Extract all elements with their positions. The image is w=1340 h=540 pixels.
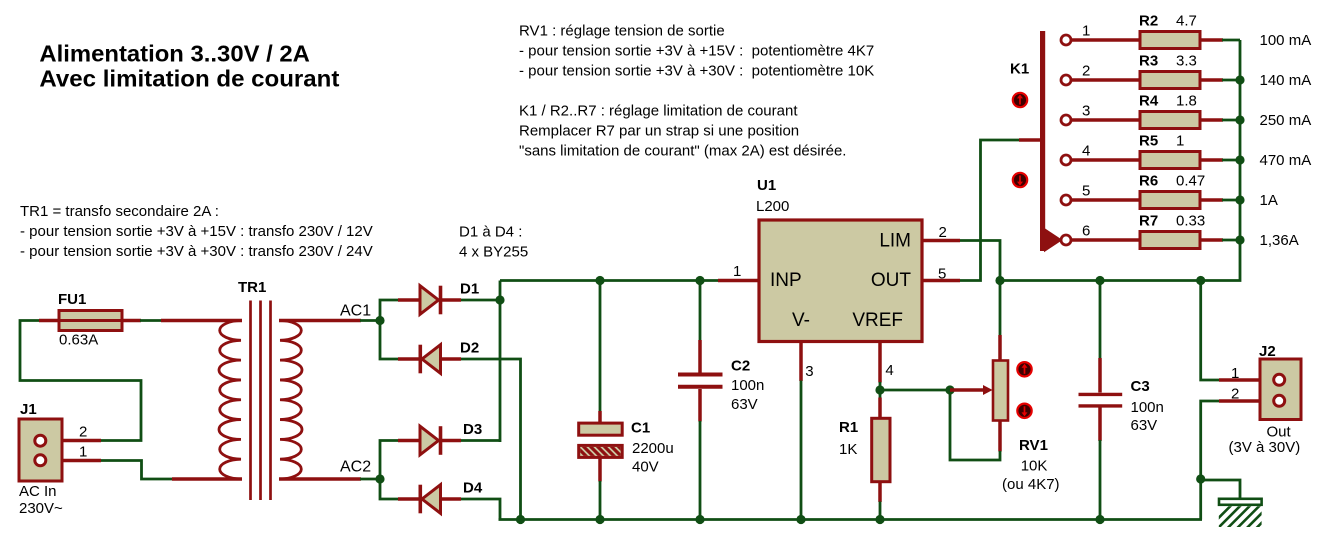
diode D1	[398, 298, 422, 302]
svg-text:C3: C3	[1131, 378, 1150, 395]
svg-text:5: 5	[938, 266, 946, 283]
svg-text:R3: R3	[1139, 53, 1158, 70]
svg-text:1A: 1A	[1260, 192, 1278, 209]
resistor R5	[1140, 152, 1200, 169]
svg-text:250 mA: 250 mA	[1260, 112, 1312, 129]
svg-text:Remplacer R7 par un strap si u: Remplacer R7 par un strap si une positio…	[519, 123, 799, 140]
ground	[1201, 480, 1240, 499]
svg-text:RV1 : réglage tension de sorti: RV1 : réglage tension de sortie	[519, 23, 725, 40]
svg-text:R4: R4	[1139, 93, 1159, 110]
wire VREF stub pin 4	[878, 340, 882, 383]
junction VREF	[875, 385, 884, 394]
wire	[140, 319, 162, 322]
svg-text:VREF: VREF	[852, 310, 903, 331]
connector J2	[1260, 359, 1301, 420]
svg-text:- pour tension sortie +3V à +1: - pour tension sortie +3V à +15V : poten…	[519, 43, 874, 60]
junction R5	[1235, 155, 1244, 164]
fuse FU1	[39, 319, 60, 323]
svg-text:2: 2	[939, 224, 947, 241]
svg-text:LIM: LIM	[879, 231, 911, 252]
RV1 wiper arrow	[950, 388, 984, 392]
wire RV1 top	[999, 281, 1002, 337]
K1 contact 2	[1069, 78, 1141, 82]
K1 pointer position 6	[1044, 228, 1063, 252]
junction RV1 wiper	[945, 385, 954, 394]
capacitor C3	[1099, 281, 1102, 360]
svg-text:63V: 63V	[731, 396, 758, 413]
K1 contact 1	[1069, 38, 1141, 42]
svg-text:2200u: 2200u	[632, 440, 674, 457]
svg-text:D3: D3	[463, 421, 482, 438]
node AC2	[375, 474, 384, 483]
node AC1	[375, 316, 384, 325]
svg-text:OUT: OUT	[871, 270, 912, 291]
wire OUT stub pin 5	[921, 279, 960, 283]
wire V- to ground	[800, 381, 803, 520]
wire J1 pin 1 stub	[40, 459, 101, 463]
diode D4	[398, 497, 421, 501]
svg-text:Avec limitation de courant: Avec limitation de courant	[39, 66, 339, 92]
junction C2 top	[695, 276, 704, 285]
resistor R7	[1140, 232, 1200, 249]
wire V- stub pin 3	[799, 340, 803, 381]
svg-text:R5: R5	[1139, 133, 1158, 150]
svg-text:FU1: FU1	[58, 291, 86, 308]
svg-text:0.33: 0.33	[1176, 213, 1205, 230]
op-amp U1 L200 regulator	[759, 220, 922, 342]
svg-text:2: 2	[1082, 63, 1090, 80]
svg-text:C2: C2	[731, 358, 750, 375]
RV1 up button	[1017, 362, 1031, 376]
wire AC1 to D2	[380, 321, 398, 360]
junction R6	[1235, 195, 1244, 204]
junction R4	[1235, 115, 1244, 124]
diode D3	[398, 439, 422, 443]
diode D2	[398, 357, 421, 361]
wire to J2 pin 1	[1201, 281, 1220, 381]
connector J1	[19, 419, 62, 481]
wire to J2 pin 2	[1201, 401, 1219, 480]
svg-text:AC In: AC In	[19, 483, 57, 500]
wire AC2 to D3	[380, 441, 398, 480]
junction R7	[1235, 235, 1244, 244]
switch K1	[1040, 31, 1045, 251]
junction C1 top	[595, 276, 604, 285]
svg-text:TR1: TR1	[238, 279, 266, 296]
K1 contact 4	[1069, 158, 1141, 162]
svg-text:V-: V-	[792, 310, 810, 331]
wire LIM to load rail	[960, 241, 1000, 281]
svg-text:(ou 4K7): (ou 4K7)	[1002, 476, 1060, 493]
svg-text:5: 5	[1082, 183, 1090, 200]
K1 up button	[1013, 93, 1027, 107]
svg-text:470 mA: 470 mA	[1260, 152, 1312, 169]
svg-text:K1: K1	[1010, 60, 1029, 77]
svg-text:R7: R7	[1139, 213, 1158, 230]
resistor R1	[878, 398, 882, 420]
wire INP stub pin 1	[718, 279, 760, 283]
junction C3 bottom	[1095, 515, 1104, 524]
junction J2 branch	[1196, 276, 1205, 285]
svg-text:100n: 100n	[731, 377, 764, 394]
svg-text:1: 1	[1231, 365, 1239, 382]
wire ground bottom rail	[499, 518, 1203, 521]
svg-text:Out: Out	[1267, 424, 1292, 441]
wire AC2 to D4	[380, 479, 398, 499]
resistor R6	[1140, 192, 1200, 209]
junction C1 bottom	[595, 515, 604, 524]
capacitor C1	[599, 281, 602, 413]
svg-text:1.8: 1.8	[1176, 93, 1197, 110]
wire to ground rail	[1199, 478, 1202, 520]
resistor R4	[1140, 112, 1200, 129]
svg-text:J1: J1	[20, 401, 37, 418]
wire AC1 to D1	[380, 300, 398, 321]
svg-text:D1 à D4 :: D1 à D4 :	[459, 224, 522, 241]
svg-text:D1: D1	[460, 281, 479, 298]
wire load rail	[1000, 40, 1240, 281]
svg-text:K1 / R2..R7 : réglage limitati: K1 / R2..R7 : réglage limitation de cour…	[519, 103, 798, 120]
wire J2 pin 1 stub	[1219, 378, 1279, 382]
junction R1 ground	[875, 515, 884, 524]
svg-text:140 mA: 140 mA	[1260, 72, 1312, 89]
svg-text:4.7: 4.7	[1176, 13, 1197, 30]
svg-text:0.63A: 0.63A	[59, 332, 98, 349]
junction D1 cathode	[495, 295, 504, 304]
wire OUT up to K1 pole	[960, 140, 1020, 281]
wire J2 pin 2 stub	[1219, 399, 1279, 403]
wire D2 anode to ground rail	[461, 359, 521, 520]
wire TR1 primary top pin	[161, 319, 242, 323]
svg-text:"sans limitation de courant" (: "sans limitation de courant" (max 2A) es…	[519, 143, 846, 160]
resistor R3	[1140, 72, 1200, 89]
wire D3 cathode	[461, 439, 500, 442]
svg-text:1: 1	[1082, 23, 1090, 40]
wire TR1 secondary top pin	[279, 319, 361, 323]
svg-text:R6: R6	[1139, 173, 1158, 190]
svg-text:1: 1	[79, 444, 87, 461]
wire D1/D3 cathode link	[499, 300, 502, 442]
svg-text:AC1: AC1	[340, 303, 371, 320]
RV1 down button	[1017, 404, 1031, 418]
junction ground branch	[1196, 474, 1205, 483]
svg-text:63V: 63V	[1131, 417, 1158, 434]
svg-text:100 mA: 100 mA	[1260, 32, 1312, 49]
junction C2 bottom	[695, 515, 704, 524]
svg-text:4 x BY255: 4 x BY255	[459, 244, 528, 261]
K1 contact 5	[1069, 198, 1141, 202]
wire LIM stub pin 2	[921, 239, 960, 243]
wire D4 anode to ground rail	[461, 499, 500, 520]
wire D1 cathode to +rail	[461, 281, 500, 301]
svg-text:C1: C1	[631, 420, 650, 437]
svg-text:1K: 1K	[839, 441, 857, 458]
K1 contact 3	[1069, 118, 1141, 122]
svg-text:1: 1	[1176, 133, 1184, 150]
svg-text:L200: L200	[756, 198, 789, 215]
wire RV1 bottom loop	[950, 390, 1000, 460]
svg-text:6: 6	[1082, 223, 1090, 240]
svg-text:(3V à 30V): (3V à 30V)	[1229, 439, 1301, 456]
svg-text:J2: J2	[1259, 343, 1276, 360]
svg-text:3: 3	[1082, 103, 1090, 120]
svg-text:Alimentation 3..30V / 2A: Alimentation 3..30V / 2A	[39, 41, 310, 67]
svg-text:- pour tension sortie +3V à +3: - pour tension sortie +3V à +30V : trans…	[20, 243, 373, 260]
svg-text:100n: 100n	[1131, 399, 1164, 416]
wire AC2	[360, 478, 382, 481]
svg-text:D2: D2	[460, 340, 479, 357]
svg-text:1: 1	[733, 263, 741, 280]
K1 down button	[1013, 173, 1027, 187]
svg-text:D4: D4	[463, 480, 483, 497]
wire VREF node	[879, 382, 882, 398]
svg-text:230V~: 230V~	[19, 500, 63, 517]
svg-text:0.47: 0.47	[1176, 173, 1205, 190]
wire FU1 left to J1 pin 2	[20, 321, 141, 441]
svg-text:R1: R1	[839, 419, 858, 436]
wire TR1 primary bottom pin	[172, 477, 242, 481]
wire J1 pin 1 to TR1 primary bottom	[101, 461, 173, 480]
svg-text:3: 3	[805, 363, 813, 380]
svg-text:2: 2	[1231, 386, 1239, 403]
svg-text:TR1 = transfo secondaire 2A :: TR1 = transfo secondaire 2A :	[20, 203, 219, 220]
K1 contact 6	[1069, 238, 1141, 242]
wire AC1	[360, 319, 382, 322]
junction V- ground	[796, 515, 805, 524]
junction R3	[1235, 75, 1244, 84]
capacitor C2	[699, 281, 702, 342]
svg-text:4: 4	[885, 362, 893, 379]
svg-text:RV1: RV1	[1019, 437, 1048, 454]
svg-text:R2: R2	[1139, 13, 1158, 30]
svg-text:40V: 40V	[632, 459, 659, 476]
wire K1 pole pin	[1019, 138, 1041, 142]
svg-text:3.3: 3.3	[1176, 53, 1197, 70]
svg-text:1,36A: 1,36A	[1260, 232, 1299, 249]
junction LIM/RV1	[995, 276, 1004, 285]
junction D2 ground	[516, 515, 525, 524]
junction C3 top	[1095, 276, 1104, 285]
svg-text:U1: U1	[757, 177, 776, 194]
svg-text:- pour tension sortie +3V à +3: - pour tension sortie +3V à +30V : poten…	[519, 63, 874, 80]
resistor R2	[1140, 32, 1200, 49]
potentiometer RV1	[998, 335, 1002, 362]
svg-text:2: 2	[79, 424, 87, 441]
svg-text:4: 4	[1082, 143, 1090, 160]
svg-text:INP: INP	[770, 270, 802, 291]
svg-text:AC2: AC2	[340, 459, 371, 476]
wire J1 pin 2 stub	[40, 439, 101, 443]
wire +V top rail	[500, 279, 719, 282]
wire TR1 secondary bottom pin	[279, 477, 361, 481]
transformer TR1	[219, 321, 241, 480]
svg-text:10K: 10K	[1021, 458, 1048, 475]
svg-text:- pour tension sortie +3V à +1: - pour tension sortie +3V à +15V : trans…	[20, 223, 373, 240]
wire VREF to RV1	[880, 389, 950, 392]
